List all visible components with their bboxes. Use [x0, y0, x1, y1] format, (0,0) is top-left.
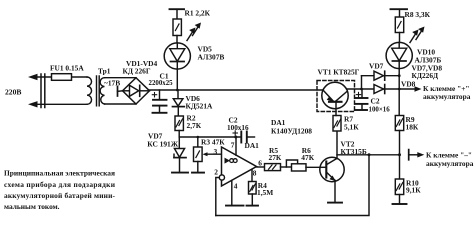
svg-text:220В: 220В: [5, 88, 21, 97]
svg-text:5,1К: 5,1К: [344, 122, 359, 131]
wire secondary bottom to bridge: [105, 103, 137, 105]
wire VD7/VD8 left bar: [361, 76, 363, 89]
node minus junction: [398, 153, 401, 156]
svg-text:КД 226Г: КД 226Г: [123, 66, 151, 75]
capacitor C2 (left): [241, 132, 254, 143]
svg-text:схема прибора для подзарядки: схема прибора для подзарядки: [4, 180, 116, 189]
resistor R7: [333, 116, 341, 132]
VD10 emission arrows: [410, 27, 425, 43]
zener VD7: [174, 137, 186, 172]
svg-text:VT1 КТ825Г: VT1 КТ825Г: [318, 67, 360, 76]
svg-text:47К: 47К: [301, 153, 314, 162]
svg-text:аккумуляторной батарей мини-: аккумуляторной батарей мини-: [4, 191, 116, 200]
capacitor C2 (right): [356, 89, 368, 110]
svg-text:КД521А: КД521А: [186, 101, 214, 110]
wire R5 to R6: [281, 166, 292, 168]
svg-text:2,7К: 2,7К: [187, 121, 202, 130]
pin 4 wire: [231, 181, 233, 206]
transformer T1 primary winding: [87, 77, 92, 104]
svg-text:VD8: VD8: [401, 79, 416, 88]
ground zener VD7: [172, 172, 188, 174]
mains terminal arrow top: [28, 74, 87, 80]
svg-text:КД226Д: КД226Д: [412, 71, 439, 80]
svg-text:R1 2,2К: R1 2,2К: [185, 9, 211, 18]
op-amp DA1: [222, 147, 257, 186]
node VD7 column junction: [398, 74, 401, 77]
LED VD10: [386, 42, 412, 115]
svg-text:4: 4: [234, 181, 238, 190]
transformer T1 secondary winding: [100, 78, 104, 104]
svg-text:8: 8: [253, 168, 257, 177]
transistor VT2: [320, 131, 344, 202]
svg-text:18К: 18К: [406, 123, 419, 132]
svg-text:R3 47К: R3 47К: [201, 138, 225, 147]
node R3 top junction: [197, 136, 200, 139]
ground R10: [393, 203, 407, 205]
pin 2 bubble: [219, 175, 224, 180]
fuse FU1: [52, 74, 72, 81]
bridge rectifier VD1-VD4: [123, 78, 150, 104]
wire feedback loop: [216, 155, 369, 216]
diode VD6: [173, 90, 185, 116]
plus mark C1: [152, 93, 156, 97]
svg-text:аккумулятора: аккумулятора: [426, 159, 474, 168]
svg-text:Принципиальная электрическая: Принципиальная электрическая: [4, 169, 115, 178]
node C2R junction: [360, 88, 363, 91]
resistor R5: [265, 164, 281, 171]
diode VD7 (output): [362, 71, 399, 80]
svg-text:9,1К: 9,1К: [406, 186, 421, 195]
svg-text:2: 2: [214, 168, 218, 177]
wire R6 to VT2 base: [306, 166, 320, 168]
resistor R10: [395, 179, 403, 204]
VD5 emission arrows: [187, 23, 201, 41]
node feedback junction: [368, 153, 371, 156]
capacitor C1: [153, 90, 167, 112]
terminal plus arrow: [399, 86, 421, 91]
plus mark C2 right: [356, 92, 360, 96]
svg-text:FU1 0.15A: FU1 0.15A: [50, 63, 84, 72]
pin 7 wire: [235, 137, 237, 155]
transformer core: [97, 76, 100, 106]
wire secondary top to bridge: [105, 77, 137, 79]
transistor VT1 (Darlington, dashed box): [317, 81, 355, 112]
terminal bridge minus stub: [118, 87, 123, 96]
svg-text:100х16: 100х16: [227, 124, 249, 132]
wire pin6 output: [257, 166, 265, 168]
terminal minus: [409, 150, 425, 160]
resistor R2: [175, 116, 183, 137]
LED VD5: [164, 36, 190, 91]
R6 wiper link: [286, 160, 297, 167]
svg-text:100×16: 100×16: [369, 106, 391, 113]
pin 8 wire: [251, 169, 253, 181]
ground VT2 emitter: [328, 202, 342, 204]
plus mark C2: [233, 131, 237, 135]
node C2 junction: [234, 136, 237, 139]
svg-text:К140УД1208: К140УД1208: [271, 127, 312, 136]
svg-text:R8 3,3К: R8 3,3К: [405, 10, 431, 19]
wire reference line y137: [179, 136, 241, 138]
svg-text:3: 3: [214, 147, 218, 156]
ground pin 4: [226, 205, 244, 207]
resistor R8: [391, 9, 408, 42]
wire VT2 collector to minus node: [337, 154, 400, 156]
resistor R4: [249, 182, 257, 206]
pin 2 wire: [216, 178, 220, 216]
connector X1 bars: [41, 74, 45, 108]
svg-text:2200х25: 2200х25: [149, 80, 174, 87]
node VD8 column junction: [398, 88, 401, 91]
ground C1: [153, 112, 167, 114]
svg-text:С2: С2: [371, 97, 380, 106]
ground R3: [192, 172, 204, 174]
node rail/VD5 junction: [176, 89, 179, 92]
op-amp infinity mark: [230, 159, 237, 163]
resistor R6: [292, 164, 307, 171]
svg-text:мальным током.: мальным током.: [4, 202, 60, 211]
ground R4: [247, 205, 259, 207]
svg-text:КС 191Ж: КС 191Ж: [147, 140, 178, 149]
svg-text:1,5М: 1,5М: [257, 188, 273, 197]
resistor R1: [170, 9, 185, 35]
diode VD8 (output): [374, 85, 385, 94]
svg-text:VD7: VD7: [369, 61, 384, 70]
svg-text:Тр1: Тр1: [98, 66, 111, 75]
potentiometer R3: [194, 137, 222, 172]
wire positive rail: [150, 89, 324, 91]
svg-text:аккумулятора: аккумулятора: [423, 92, 471, 101]
ground C2 right: [355, 109, 367, 111]
svg-text:6: 6: [258, 159, 262, 168]
svg-text:27К: 27К: [269, 153, 282, 162]
resistor R9: [395, 116, 403, 180]
wire VT1 collector to plus node: [347, 88, 400, 90]
mains terminal arrow bottom: [28, 101, 87, 107]
svg-text:АЛ307В: АЛ307В: [198, 53, 225, 62]
svg-text:7: 7: [231, 140, 235, 149]
